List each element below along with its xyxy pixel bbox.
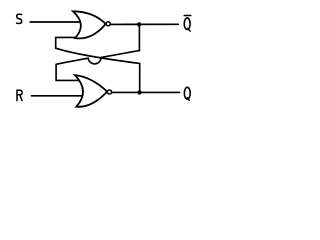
- wire U2 output: [112, 91, 180, 93]
- wire S input: [30, 21, 80, 23]
- input label S: [17, 14, 22, 23]
- nor gate U2 (bottom): [75, 75, 107, 107]
- wire feedback Qbar diagonal with hop: [56, 51, 139, 65]
- wire feedback Qbar vertical: [138, 24, 140, 50]
- node junction top: [137, 22, 141, 26]
- wire bottom gate upper-input stub: [56, 64, 80, 80]
- output label Qbar: [184, 18, 190, 31]
- inverter bubble U2: [107, 90, 111, 94]
- wire top gate lower-input stub: [56, 37, 76, 48]
- output label Q: [184, 87, 190, 100]
- wire R input: [32, 95, 83, 97]
- input label R: [17, 90, 22, 100]
- output label Qbar overbar: [184, 15, 191, 17]
- inverter bubble U1: [106, 22, 110, 26]
- wire feedback Q vertical: [139, 63, 141, 92]
- wire U1 output: [111, 23, 179, 25]
- node junction bottom: [137, 90, 141, 94]
- nor gate U1 (top): [73, 11, 106, 38]
- wire feedback Q to top gate (diagonal): [56, 48, 140, 63]
